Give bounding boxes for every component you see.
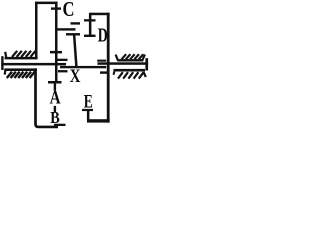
left lower pad lip bbox=[4, 70, 7, 75]
E bracket bottom bar bbox=[87, 119, 110, 122]
A-B link dash bbox=[54, 106, 56, 112]
right upper pad right lip bbox=[142, 55, 145, 61]
left upper pad hatch bbox=[12, 51, 36, 57]
svg-text:C: C bbox=[63, 0, 75, 21]
mesh dash right of C column bbox=[58, 59, 68, 61]
gear D vertical bbox=[89, 13, 92, 37]
D bracket top bar bbox=[90, 13, 110, 16]
gear D upper tick bbox=[84, 19, 96, 21]
dash above axis right fork bbox=[97, 60, 106, 62]
AB column vertical bbox=[55, 65, 58, 81]
carrier bar bbox=[60, 66, 106, 68]
right upper pad hatch bbox=[122, 54, 144, 59]
gear B tick bbox=[54, 124, 66, 126]
right upper bearing pad line bbox=[117, 59, 143, 61]
mesh tick on C column bbox=[50, 51, 62, 54]
right shaft end cap bbox=[145, 58, 148, 70]
frame bracket lower vertical and bottom bar bbox=[36, 68, 59, 127]
frame bracket left vertical bbox=[35, 2, 38, 59]
svg-text:D: D bbox=[98, 25, 108, 47]
left upper pad lip bbox=[5, 52, 6, 58]
gear A tick bbox=[48, 81, 62, 84]
right lower pad left lip bbox=[113, 72, 116, 75]
axis right segment bbox=[98, 62, 149, 65]
planet mesh dash bbox=[71, 22, 81, 24]
planet axis bar bbox=[56, 28, 76, 30]
svg-text:A: A bbox=[50, 87, 61, 108]
E bracket stem bbox=[87, 111, 90, 120]
right lower bearing pad line bbox=[114, 69, 146, 72]
svg-text:X: X bbox=[70, 66, 81, 87]
left lower pad hatch bbox=[7, 72, 35, 78]
gear C shaft vertical bbox=[55, 2, 58, 65]
right upper pad left lip bbox=[116, 55, 118, 61]
dash below axis right fork bbox=[100, 71, 107, 73]
right shell vertical bbox=[107, 13, 110, 123]
stem tick to A bbox=[54, 84, 56, 91]
right lower pad hatch bbox=[118, 72, 144, 78]
right lower pad right lip bbox=[144, 72, 146, 77]
planet T-bar bbox=[66, 33, 80, 35]
left upper bearing pad line bbox=[5, 57, 38, 60]
carrier arm vertical bbox=[74, 35, 76, 67]
gear C tick bbox=[51, 7, 61, 9]
gear D lower tick bbox=[84, 35, 96, 37]
left shaft end cap bbox=[1, 56, 3, 70]
left lower bearing pad line bbox=[4, 68, 37, 71]
frame bracket top bar bbox=[35, 2, 58, 5]
main axis left segment bbox=[1, 63, 66, 66]
mesh dash right of AB column bbox=[58, 70, 68, 72]
gear E tick bbox=[82, 109, 93, 111]
